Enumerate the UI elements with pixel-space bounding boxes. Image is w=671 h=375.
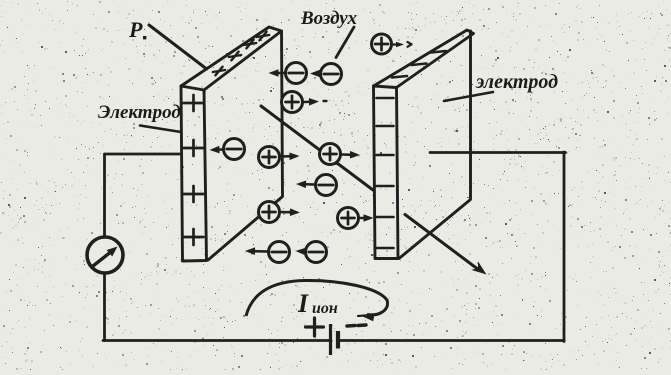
svg-text:ион: ион: [312, 300, 338, 317]
svg-text:Электрод: Электрод: [98, 102, 181, 123]
svg-text:электрод: электрод: [475, 71, 558, 93]
svg-text:Воздух: Воздух: [300, 8, 357, 29]
svg-text:P: P: [128, 17, 143, 42]
svg-text:I: I: [297, 289, 309, 318]
